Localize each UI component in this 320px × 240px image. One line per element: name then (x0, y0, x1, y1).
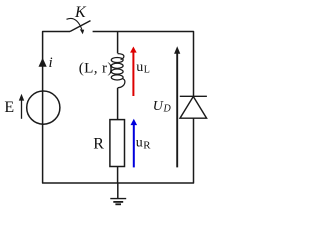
svg-text:K: K (74, 4, 87, 21)
svg-text:U: U (153, 99, 164, 114)
svg-text:R: R (93, 136, 104, 153)
svg-text:L: L (144, 65, 150, 76)
svg-text:u: u (136, 60, 143, 75)
svg-text:i: i (49, 55, 53, 71)
svg-text:R: R (143, 140, 151, 152)
svg-text:D: D (163, 103, 172, 114)
svg-text:u: u (136, 135, 143, 150)
svg-text:E: E (4, 99, 14, 116)
svg-text:(L, r): (L, r) (79, 59, 113, 76)
